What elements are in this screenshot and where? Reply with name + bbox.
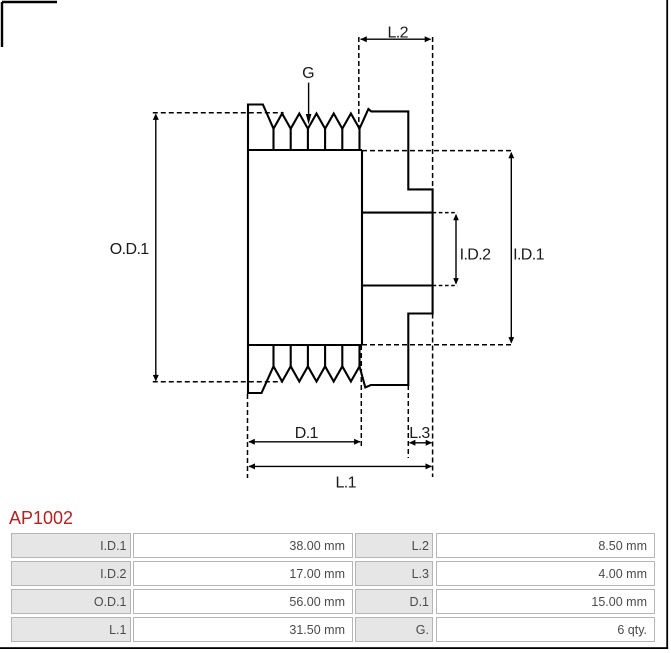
dimension I.D.2 line: [455, 216, 457, 284]
dashed ref O.D. top: [153, 112, 284, 114]
hub bore bottom line: [362, 284, 433, 286]
dashed leader bore bottom: [433, 285, 458, 287]
pulley body top line: [248, 149, 362, 151]
dashed ref I.D.1 bottom: [362, 344, 513, 346]
dimension I.D.2 arrowheads: [453, 214, 459, 285]
spec table row 2: [11, 561, 131, 586]
dimension D.1 arrowheads: [248, 439, 360, 445]
svg-text:L.2: L.2: [387, 24, 408, 41]
pulley body right edge: [361, 150, 363, 345]
dimension L.3 line: [410, 442, 432, 444]
dimension I.D.1 arrowheads: [508, 152, 514, 344]
hub bore top line: [362, 212, 433, 214]
top-left corner mark: [2, 2, 57, 47]
dashed ref O.D. bottom: [153, 381, 283, 383]
top groove slots: [274, 129, 360, 150]
right border: [666, 0, 668, 649]
dimension L.1 arrowheads: [249, 463, 433, 469]
dashed ref I.D.1 top: [362, 150, 513, 152]
dimension L.2 line: [361, 38, 431, 40]
spec table row 3: [11, 589, 131, 614]
pulley body bottom line: [248, 344, 362, 346]
dimension O.D.1 line: [155, 115, 157, 381]
svg-text:I.D.2: I.D.2: [460, 247, 491, 264]
dimension L.1 line: [249, 465, 432, 467]
svg-text:O.D.1: O.D.1: [110, 241, 149, 258]
part number AP1002: [9, 508, 73, 529]
svg-text:L.1: L.1: [335, 475, 356, 492]
svg-text:G: G: [302, 65, 314, 82]
dimension D.1 line: [249, 441, 360, 443]
dimension L.3 arrowheads: [409, 440, 432, 446]
svg-text:D.1: D.1: [295, 425, 319, 442]
dashed ext right lower: [432, 314, 434, 478]
dashed ext D.1 right: [360, 345, 362, 448]
dimension L.2 arrowheads: [360, 36, 431, 42]
dashed ext L.3 left: [407, 385, 409, 458]
svg-text:I.D.1: I.D.1: [513, 247, 544, 264]
dashed ext L.2 left: [358, 37, 360, 129]
dashed ext right upper: [432, 37, 434, 190]
spec table row 1: [11, 533, 131, 558]
bottom groove slots: [274, 345, 360, 366]
pulley outer outline: [248, 105, 433, 394]
spec table row 4: [11, 617, 131, 642]
svg-text:L.3: L.3: [409, 425, 430, 442]
dimension I.D.1 line: [510, 153, 512, 343]
dashed leader bore top: [433, 212, 458, 214]
bottom border: [0, 647, 668, 649]
dimension O.D.1 arrowheads: [153, 113, 159, 381]
dashed ext D.1 left: [247, 394, 249, 478]
G leader arrow: [308, 83, 310, 116]
